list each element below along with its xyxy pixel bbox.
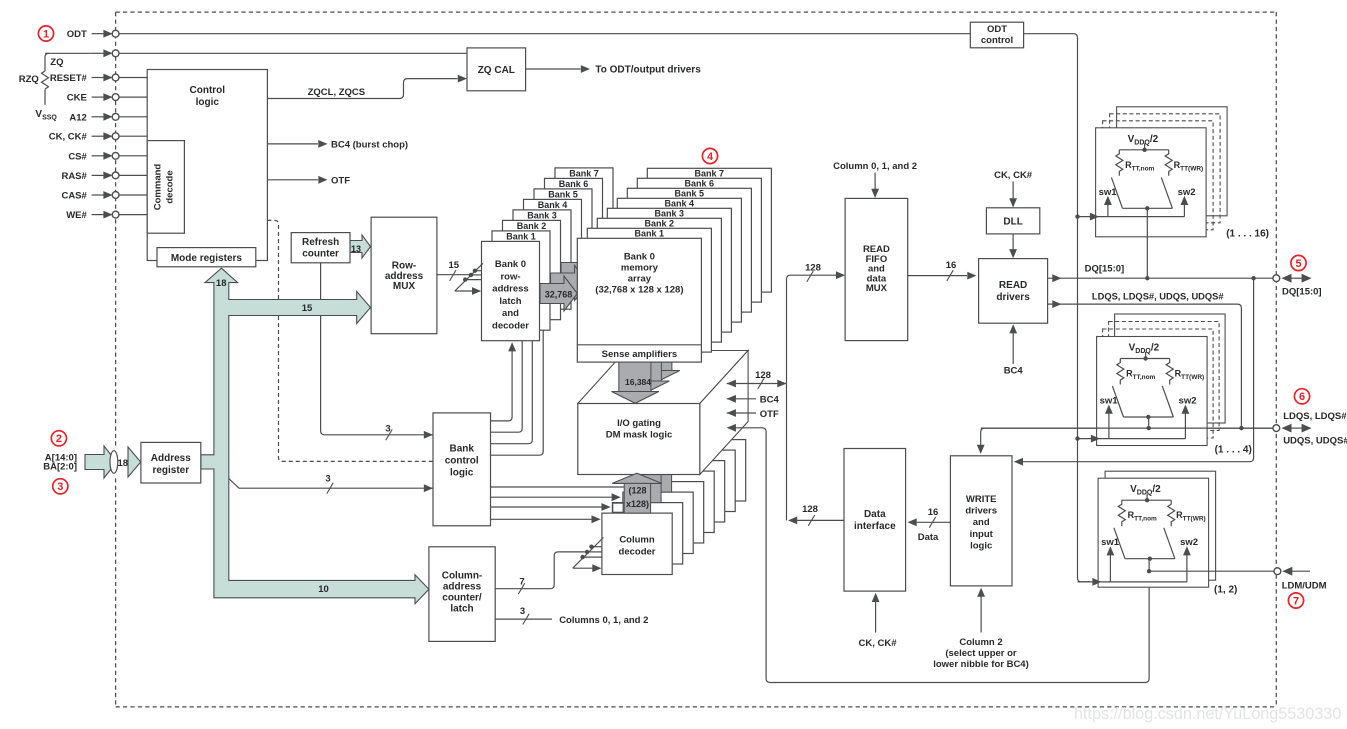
svg-text:x128): x128) (626, 499, 649, 509)
svg-text:Column 0, 1, and 2: Column 0, 1, and 2 (833, 161, 917, 172)
svg-text:OTF: OTF (331, 175, 350, 186)
svg-text:Bank 0: Bank 0 (624, 252, 655, 263)
svg-text:row-: row- (500, 271, 520, 282)
svg-text:BA[2:0]: BA[2:0] (43, 462, 77, 473)
svg-text:Data: Data (918, 532, 939, 543)
svg-text:ZQ CAL: ZQ CAL (478, 65, 515, 76)
svg-text:Bank 4: Bank 4 (538, 200, 568, 210)
svg-text:LDQS, LDQS#, UDQS, UDQS#: LDQS, LDQS#, UDQS, UDQS# (1092, 292, 1224, 303)
svg-text:register: register (152, 465, 189, 476)
svg-text:6: 6 (1299, 391, 1305, 403)
svg-text:DQ[15:0]: DQ[15:0] (1282, 286, 1322, 297)
svg-text:18: 18 (216, 278, 227, 289)
svg-text:Bank 2: Bank 2 (517, 221, 547, 231)
svg-text:CK, CK#: CK, CK# (858, 638, 897, 649)
svg-text:1: 1 (43, 28, 49, 40)
svg-text:input: input (970, 529, 994, 540)
svg-text:BC4 (burst chop): BC4 (burst chop) (331, 140, 408, 151)
svg-text:CK, CK#: CK, CK# (49, 132, 88, 143)
svg-text:WRITE: WRITE (966, 494, 997, 505)
svg-text:Bank 1: Bank 1 (635, 229, 665, 239)
svg-text:(128: (128 (628, 485, 646, 495)
svg-text:Refresh: Refresh (302, 237, 339, 248)
svg-text:https://blog.csdn.net/YuLong55: https://blog.csdn.net/YuLong5530330 (1074, 705, 1341, 723)
svg-text:drivers: drivers (965, 506, 997, 517)
svg-text:Bank 6: Bank 6 (685, 179, 715, 189)
svg-text:latch: latch (450, 603, 473, 614)
svg-text:Mode registers: Mode registers (171, 253, 243, 264)
svg-text:A12: A12 (69, 112, 86, 123)
svg-text:15: 15 (302, 303, 313, 314)
svg-text:Bank 0: Bank 0 (495, 259, 526, 270)
svg-text:4: 4 (707, 151, 714, 163)
svg-text:sw2: sw2 (1180, 537, 1198, 548)
svg-text:array: array (628, 274, 652, 285)
svg-text:CAS#: CAS# (61, 191, 87, 202)
svg-text:WE#: WE# (66, 210, 87, 221)
svg-text:ODT: ODT (987, 24, 1007, 35)
svg-text:MUX: MUX (866, 283, 888, 294)
svg-text:and: and (973, 517, 990, 528)
svg-text:ODT: ODT (67, 29, 87, 40)
svg-text:control: control (445, 456, 479, 467)
svg-text:Bank: Bank (449, 444, 474, 455)
svg-text:RZQ: RZQ (19, 74, 39, 85)
svg-text:15: 15 (449, 260, 460, 271)
svg-text:CKE: CKE (67, 93, 87, 104)
svg-text:BC4: BC4 (1004, 366, 1024, 377)
svg-text:DM mask logic: DM mask logic (606, 430, 673, 441)
svg-text:Columns 0, 1, and 2: Columns 0, 1, and 2 (559, 615, 648, 626)
svg-text:logic: logic (970, 540, 992, 551)
svg-text:and: and (502, 308, 519, 319)
svg-text:Command: Command (153, 164, 164, 211)
svg-text:32,768: 32,768 (545, 289, 573, 299)
svg-text:Column 2: Column 2 (959, 637, 1002, 648)
svg-text:Bank 7: Bank 7 (569, 168, 599, 178)
svg-text:address: address (443, 581, 482, 592)
svg-text:OTF: OTF (760, 409, 779, 420)
svg-text:BC4: BC4 (760, 395, 780, 406)
svg-text:address: address (492, 284, 528, 295)
svg-text:CS#: CS# (68, 151, 87, 162)
svg-text:interface: interface (854, 521, 896, 532)
svg-text:16,384: 16,384 (625, 377, 651, 387)
svg-text:counter: counter (302, 249, 339, 260)
svg-text:3: 3 (57, 481, 63, 493)
svg-text:READ: READ (999, 280, 1027, 291)
svg-text:logic: logic (450, 468, 474, 479)
svg-text:logic: logic (196, 97, 220, 108)
svg-text:UDQS, UDQS#: UDQS, UDQS# (1283, 436, 1347, 447)
svg-text:16: 16 (946, 260, 957, 271)
svg-text:13: 13 (351, 244, 361, 254)
svg-text:Bank 5: Bank 5 (548, 189, 578, 199)
svg-text:(32,768 x 128 x 128): (32,768 x 128 x 128) (595, 285, 683, 296)
svg-text:LDM/UDM: LDM/UDM (1282, 580, 1327, 591)
svg-text:Sense amplifiers: Sense amplifiers (602, 349, 678, 360)
svg-text:7: 7 (1293, 595, 1299, 607)
svg-text:Address: Address (151, 453, 191, 464)
svg-text:128: 128 (802, 504, 818, 515)
svg-text:control: control (981, 35, 1013, 46)
svg-text:sw2: sw2 (1178, 187, 1196, 198)
svg-text:DQ[15:0]: DQ[15:0] (1085, 263, 1125, 274)
svg-text:2: 2 (56, 433, 62, 445)
svg-text:MUX: MUX (393, 281, 416, 292)
svg-text:drivers: drivers (996, 292, 1030, 303)
svg-text:I/O gating: I/O gating (617, 418, 661, 429)
svg-text:memory: memory (621, 263, 659, 274)
svg-text:counter/: counter/ (442, 592, 482, 603)
svg-text:LDQS, LDQS#: LDQS, LDQS# (1283, 411, 1347, 422)
svg-text:Control: Control (190, 85, 226, 96)
svg-text:Bank 1: Bank 1 (506, 231, 536, 241)
svg-text:Bank 7: Bank 7 (695, 169, 725, 179)
svg-text:(1 . . . 4): (1 . . . 4) (1215, 444, 1252, 455)
svg-text:sw2: sw2 (1179, 396, 1197, 407)
svg-text:Bank 6: Bank 6 (559, 179, 589, 189)
svg-text:RESET#: RESET# (50, 73, 88, 84)
svg-text:Bank 3: Bank 3 (527, 210, 557, 220)
svg-text:decode: decode (165, 170, 176, 203)
svg-text:(select upper or: (select upper or (945, 648, 1017, 659)
svg-text:Bank 5: Bank 5 (675, 189, 705, 199)
svg-text:(1, 2): (1, 2) (1214, 585, 1237, 596)
svg-text:Column-: Column- (442, 570, 483, 581)
svg-text:5: 5 (1295, 258, 1301, 270)
svg-text:RAS#: RAS# (61, 171, 87, 182)
svg-text:ZQ: ZQ (50, 57, 63, 68)
svg-text:CK, CK#: CK, CK# (994, 170, 1033, 181)
svg-text:To ODT/output drivers: To ODT/output drivers (595, 65, 701, 76)
svg-text:DLL: DLL (1003, 217, 1022, 228)
svg-text:Bank 2: Bank 2 (645, 219, 675, 229)
svg-text:ZQCL, ZQCS: ZQCL, ZQCS (308, 87, 366, 98)
svg-text:decoder: decoder (492, 321, 529, 332)
svg-text:Bank 3: Bank 3 (655, 209, 685, 219)
svg-text:lower nibble for BC4): lower nibble for BC4) (933, 659, 1029, 670)
svg-text:7: 7 (519, 577, 524, 588)
svg-text:3: 3 (325, 473, 330, 484)
svg-text:Bank 4: Bank 4 (665, 199, 695, 209)
svg-text:Column: Column (619, 535, 655, 546)
svg-text:10: 10 (318, 584, 329, 595)
svg-text:16: 16 (928, 507, 939, 518)
svg-text:3: 3 (520, 606, 525, 617)
svg-text:decoder: decoder (619, 546, 656, 557)
svg-text:18: 18 (118, 458, 129, 469)
svg-text:Data: Data (864, 509, 886, 520)
svg-text:(1 . . . 16): (1 . . . 16) (1226, 229, 1269, 240)
svg-text:latch: latch (499, 296, 521, 307)
